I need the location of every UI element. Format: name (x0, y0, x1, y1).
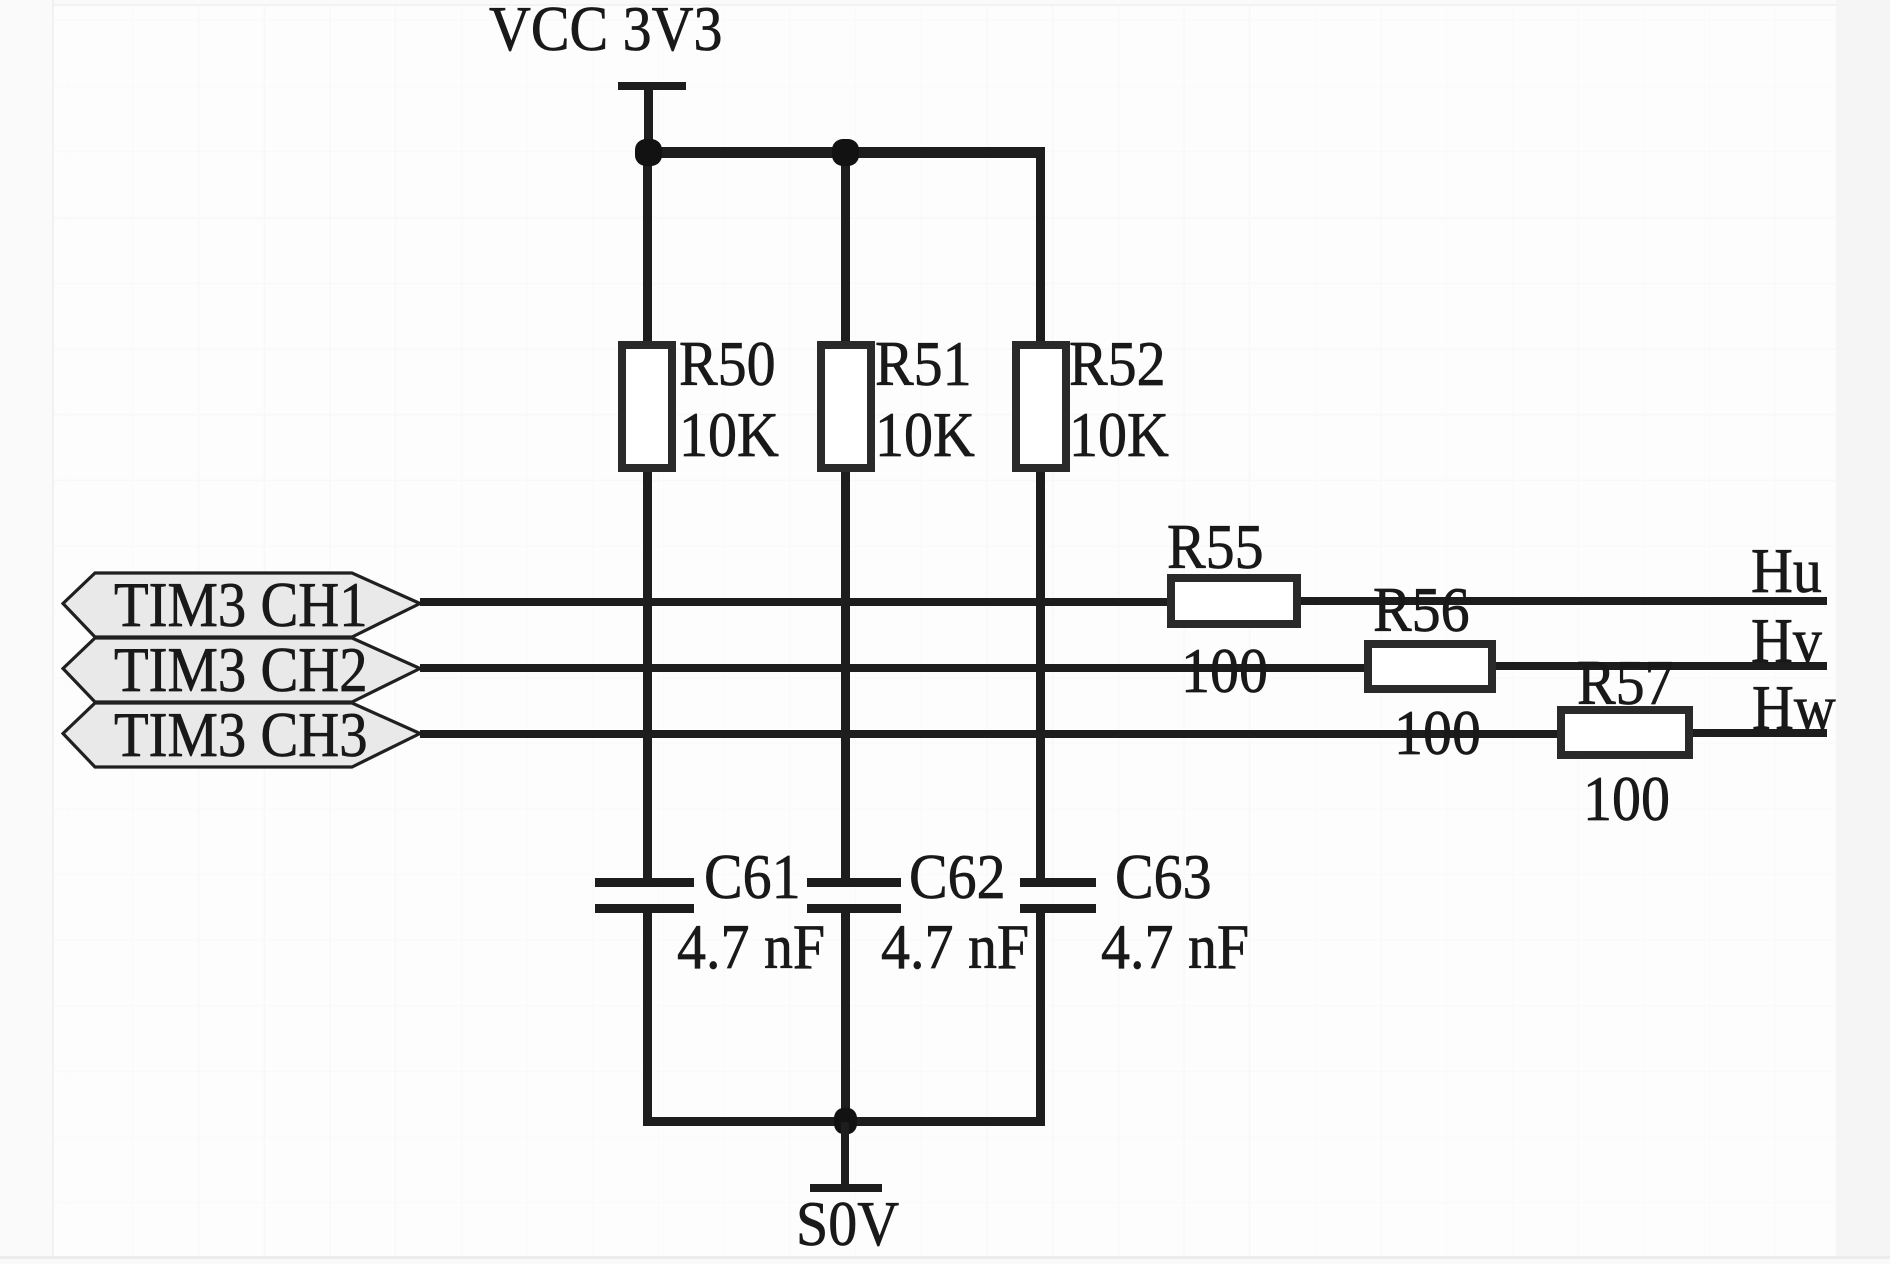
resistor R55 value 100 (1181, 640, 1268, 703)
capacitor C62 bottom plate (807, 904, 901, 913)
capacitor C62 label (909, 846, 1006, 909)
ground bar S0V (810, 1184, 882, 1192)
resistor R50 label (679, 333, 776, 396)
port flag TIM3_CH2 text (114, 639, 368, 702)
wire R57 to Hw (1693, 729, 1827, 737)
capacitor C63 value (1101, 916, 1249, 979)
net label Hv (1751, 610, 1822, 673)
resistor R57 value 100 (1583, 768, 1670, 831)
wire TIM3_CH1 to R55 (420, 598, 1167, 606)
capacitor C62 value (881, 916, 1029, 979)
wire column 3 lower (1036, 913, 1045, 1122)
resistor R51 label (875, 333, 972, 396)
resistor R55 label (1167, 516, 1264, 579)
port flag TIM3_CH3 (61, 701, 425, 770)
wire VCC stem (644, 90, 653, 152)
wire column 2 upper (841, 147, 850, 878)
capacitor C61 bottom plate (595, 904, 694, 913)
wire bottom rail (643, 1117, 1045, 1126)
resistor R52 label (1069, 333, 1166, 396)
resistor R56 value 100 (1394, 702, 1481, 765)
wire R55 to Hu (1301, 597, 1827, 605)
capacitor C61 label (704, 846, 801, 909)
wire TIM3_CH2 to R56 (420, 664, 1364, 672)
port flag TIM3_CH1 (61, 571, 425, 640)
resistor R56 body (1364, 640, 1496, 693)
resistor R50 body (618, 341, 676, 472)
resistor R57 body (1557, 706, 1693, 759)
wire ground stem (841, 1122, 849, 1186)
resistor R51 value 10K (875, 404, 975, 467)
resistor R52 body (1012, 341, 1070, 472)
capacitor C63 bottom plate (1020, 904, 1096, 913)
wire column 3 upper (1036, 147, 1045, 878)
resistor R56 label (1373, 579, 1470, 642)
power net label VCC 3V3 (489, 0, 722, 61)
resistor R51 body (817, 341, 875, 472)
junction dot A (VCC / col1) (635, 139, 662, 166)
net label Hu (1751, 540, 1822, 603)
capacitor C63 top plate (1020, 878, 1096, 887)
capacitor C61 top plate (595, 878, 694, 887)
junction dot B (col2 / bus) (832, 139, 859, 166)
power bar symbol VCC (618, 82, 686, 90)
wire column 1 lower (643, 913, 652, 1122)
wire R56 to Hv (1496, 662, 1827, 670)
wire TIM3_CH3 to R57 (420, 730, 1557, 738)
net label Hw (1752, 677, 1836, 740)
port flag TIM3_CH1 text (114, 574, 368, 637)
wire column 1 upper (643, 147, 652, 878)
resistor R50 value 10K (679, 404, 779, 467)
junction dot C (ground) (834, 1108, 857, 1134)
capacitor C62 top plate (807, 878, 901, 887)
ground net label S0V (796, 1193, 899, 1256)
resistor R52 value 10K (1069, 404, 1169, 467)
resistor R55 body (1167, 574, 1301, 628)
port flag TIM3_CH3 text (114, 704, 368, 767)
capacitor C61 value (677, 916, 825, 979)
wire column 2 lower (841, 913, 850, 1122)
wire top bus (643, 147, 1045, 158)
resistor R57 label (1577, 652, 1674, 715)
capacitor C63 label (1115, 846, 1212, 909)
port flag TIM3_CH2 (61, 636, 425, 705)
